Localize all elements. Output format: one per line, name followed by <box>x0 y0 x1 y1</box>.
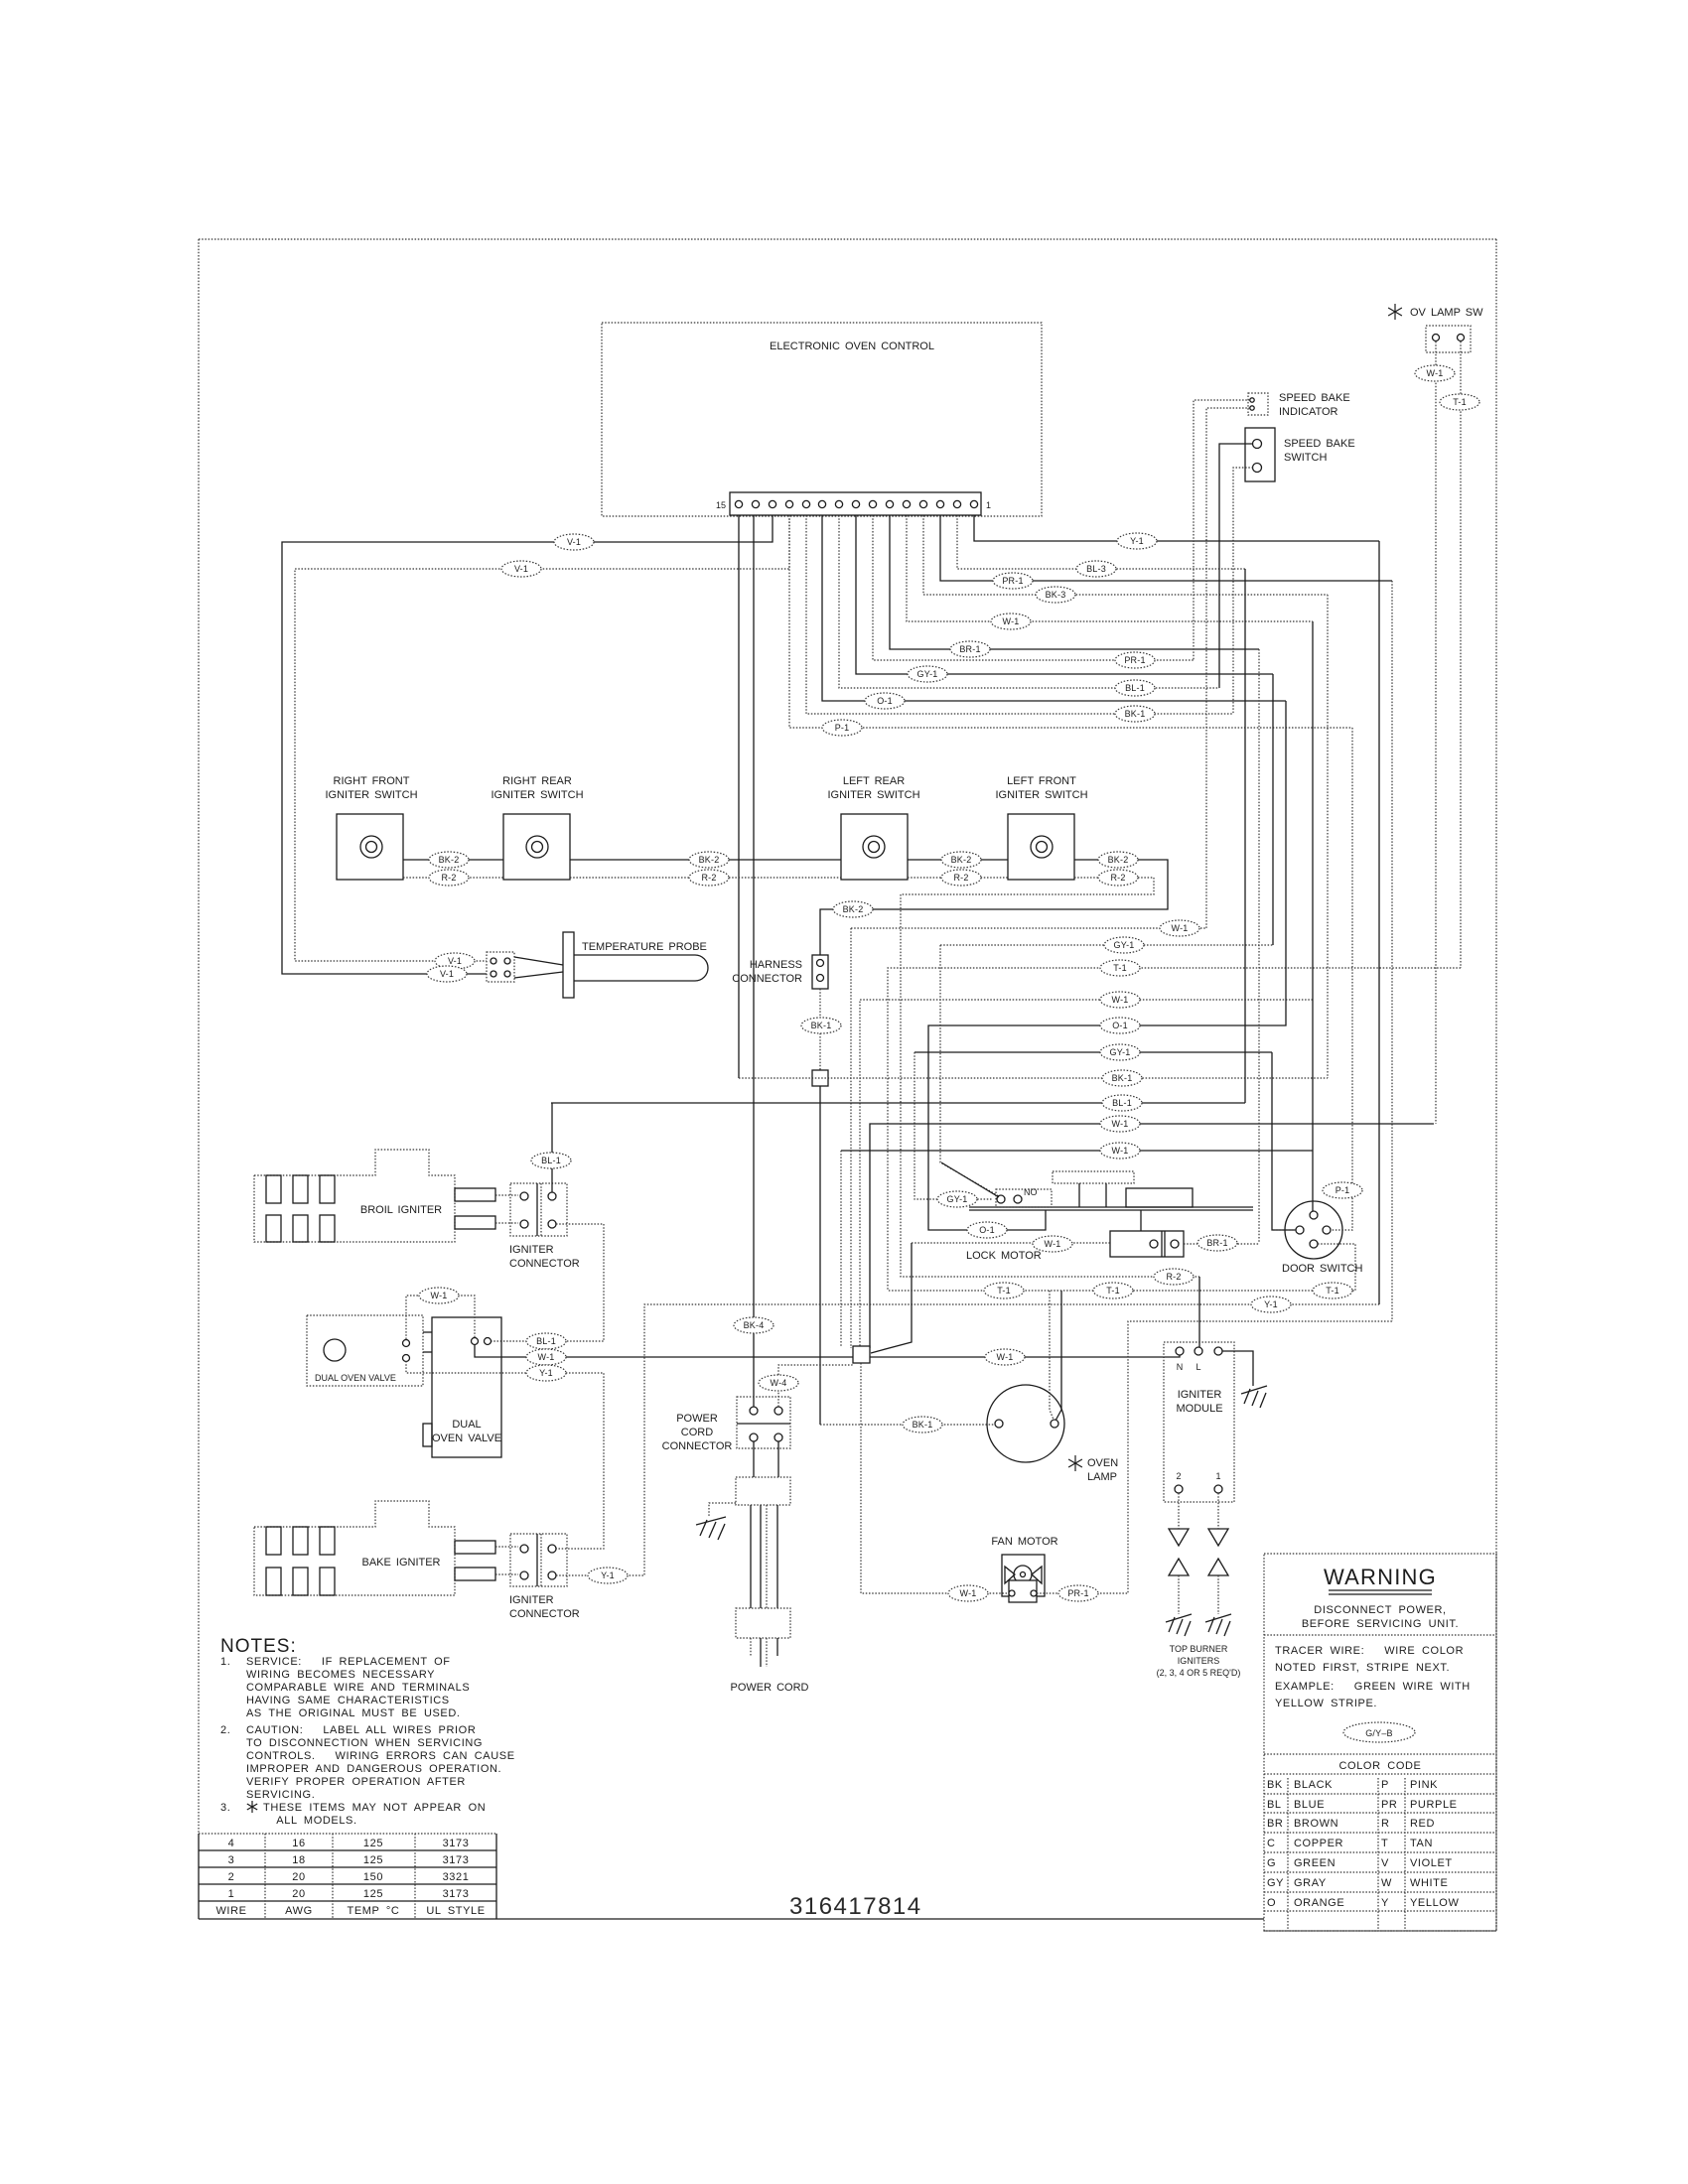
label BK-2 harness <box>833 901 873 917</box>
label BR-1 lock <box>1197 1235 1237 1251</box>
wire P-1 from U1 pin <box>789 515 1352 728</box>
svg-text:4: 4 <box>228 1838 235 1849</box>
wire PR-1 from U1 pin <box>940 515 1392 581</box>
label BK-1 lamp <box>903 1417 942 1433</box>
svg-text:BROIL IGNITER: BROIL IGNITER <box>360 1204 442 1216</box>
svg-text:R-2: R-2 <box>441 873 456 883</box>
wire module pin 2 arrow <box>1178 1493 1180 1529</box>
left rear igniter switch <box>841 814 908 880</box>
wire W-1 splice down to fan <box>861 1363 1007 1593</box>
label T-1 lamp sw <box>1440 394 1479 410</box>
svg-text:BL-3: BL-3 <box>1086 564 1106 574</box>
svg-text:ORANGE: ORANGE <box>1294 1897 1344 1909</box>
wire T-1 row <box>888 968 1461 1291</box>
door switch S3 <box>1285 1201 1342 1259</box>
wire W-1 lock drop to splice <box>871 1243 912 1353</box>
svg-text:BK-2: BK-2 <box>1108 855 1129 865</box>
svg-text:T-1: T-1 <box>1106 1286 1120 1296</box>
svg-text:GY-1: GY-1 <box>1110 1047 1131 1057</box>
svg-text:L: L <box>1196 1362 1200 1372</box>
wire T-1 dotted branch to lamp <box>1050 1291 1054 1420</box>
svg-text:BK-2: BK-2 <box>951 855 972 865</box>
svg-text:PR-1: PR-1 <box>1002 576 1023 586</box>
valve pins <box>403 1340 410 1347</box>
svg-text:THESE ITEMS MAY NOT APPEAR ON: THESE ITEMS MAY NOT APPEAR ON <box>263 1802 486 1814</box>
wire R-2 from LF switch down to igniter module L <box>901 878 1199 1277</box>
wire GY-1 row lower <box>914 1051 1272 1053</box>
svg-text:CONNECTOR: CONNECTOR <box>509 1608 580 1620</box>
svg-text:SPEED BAKE: SPEED BAKE <box>1284 438 1355 450</box>
wire PR-1 fan <box>1037 1321 1392 1593</box>
svg-text:IGNITER: IGNITER <box>509 1244 554 1256</box>
svg-text:SERVICING.: SERVICING. <box>246 1789 315 1801</box>
label BK-4 <box>734 1317 774 1333</box>
svg-text:W-1: W-1 <box>1112 1146 1129 1156</box>
svg-text:BL-1: BL-1 <box>1125 683 1145 693</box>
label V-1 second <box>501 561 541 577</box>
svg-text:UL STYLE: UL STYLE <box>426 1905 485 1917</box>
svg-text:R-2: R-2 <box>953 873 968 883</box>
svg-text:T: T <box>1381 1838 1388 1849</box>
svg-text:1: 1 <box>228 1888 235 1900</box>
wire BK-1 row <box>739 1077 1328 1079</box>
wire PR-1 to indicator <box>1194 400 1250 660</box>
svg-text:VIOLET: VIOLET <box>1410 1857 1453 1869</box>
svg-text:BEFORE SERVICING UNIT.: BEFORE SERVICING UNIT. <box>1302 1618 1459 1630</box>
svg-text:GY-1: GY-1 <box>917 669 938 679</box>
wire PR-1 from U1 pin <box>873 515 1194 660</box>
wire Y-1 from U1 pin <box>974 515 1379 541</box>
wire R-2 to module L <box>1198 1277 1200 1347</box>
svg-text:TEMP °C: TEMP °C <box>348 1905 400 1917</box>
label BL-1 broil <box>531 1153 571 1168</box>
oven lamp label <box>1068 1455 1082 1471</box>
svg-text:P-1: P-1 <box>835 723 850 733</box>
svg-text:TEMPERATURE PROBE: TEMPERATURE PROBE <box>582 941 707 953</box>
svg-text:NO: NO <box>1024 1187 1038 1197</box>
right rear igniter switch <box>503 814 570 880</box>
wire module pin 1 arrow <box>1217 1493 1219 1529</box>
svg-text:R-2: R-2 <box>1166 1272 1181 1282</box>
wire W-1 row3 from lamp switch <box>870 1124 1434 1348</box>
label W-4 <box>759 1375 798 1391</box>
svg-text:125: 125 <box>363 1854 383 1866</box>
oven lamp switch S1 <box>1426 326 1471 352</box>
svg-text:RIGHT REAR: RIGHT REAR <box>502 775 572 787</box>
ground symbol burner 2 <box>1166 1614 1192 1636</box>
label R-2 3 <box>941 870 981 886</box>
example wire label G/Y-B <box>1343 1722 1415 1742</box>
svg-text:RED: RED <box>1410 1818 1435 1830</box>
svg-text:POWER: POWER <box>676 1413 718 1425</box>
wire T-1 door bottom <box>888 1244 1355 1291</box>
svg-text:W-1: W-1 <box>431 1291 448 1300</box>
wire W-1 splice to igniter module N <box>870 1353 1180 1357</box>
svg-text:R-2: R-2 <box>701 873 716 883</box>
junction square on BK-1 <box>812 1070 828 1086</box>
wire W-1 lock <box>912 1242 1110 1244</box>
svg-text:LEFT REAR: LEFT REAR <box>843 775 905 787</box>
svg-text:MODULE: MODULE <box>1176 1403 1222 1415</box>
wire BK-1 from harness down <box>819 989 821 1070</box>
svg-text:GY-1: GY-1 <box>947 1194 968 1204</box>
svg-text:TO DISCONNECTION WHEN SERVICIN: TO DISCONNECTION WHEN SERVICING <box>246 1737 483 1749</box>
svg-text:TRACER WIRE: WIRE COLOR: TRACER WIRE: WIRE COLOR <box>1275 1645 1464 1657</box>
svg-text:IGNITER SWITCH: IGNITER SWITCH <box>491 789 583 801</box>
svg-text:BAKE IGNITER: BAKE IGNITER <box>361 1557 440 1569</box>
label Y-1 bake <box>588 1568 628 1583</box>
wire BL-3 from U1 pin <box>957 515 1245 569</box>
svg-text:BL-1: BL-1 <box>536 1336 556 1346</box>
label BK-1 harness <box>801 1018 841 1033</box>
wire BK-1 from U1 pin <box>806 515 1233 714</box>
svg-text:NOTED FIRST, STRIPE NEXT.: NOTED FIRST, STRIPE NEXT. <box>1275 1662 1450 1674</box>
svg-text:GREEN: GREEN <box>1294 1857 1336 1869</box>
label V-1 probe a <box>435 953 475 969</box>
svg-text:O-1: O-1 <box>979 1225 995 1235</box>
label W-1 fan <box>948 1585 988 1601</box>
svg-text:SERVICE: IF REPLACEMENT OF: SERVICE: IF REPLACEMENT OF <box>246 1656 451 1668</box>
svg-text:W-1: W-1 <box>997 1352 1014 1362</box>
svg-text:BROWN: BROWN <box>1294 1818 1338 1830</box>
wire W-1 row4 to door switch <box>841 1150 1313 1152</box>
svg-text:POWER CORD: POWER CORD <box>731 1682 809 1694</box>
note 3 asterisk <box>247 1801 257 1813</box>
svg-text:IGNITER: IGNITER <box>509 1594 554 1606</box>
U1 pins 15..1 <box>735 500 977 507</box>
broil igniter E1 <box>254 1150 455 1242</box>
svg-text:CONTROLS. WIRING ERRORS CAN: CONTROLS. WIRING ERRORS CAN CAUSE <box>246 1750 515 1762</box>
label BK-2 4 <box>1098 852 1138 868</box>
label Y-1 row <box>1251 1297 1291 1312</box>
wire BK-1 junction to lamp <box>819 1086 821 1425</box>
svg-text:Y-1: Y-1 <box>539 1368 553 1378</box>
svg-text:3173: 3173 <box>443 1838 470 1849</box>
power cord wires <box>750 1505 752 1608</box>
wire BK-1 long drop from pin 15 <box>738 515 740 1078</box>
svg-text:W-1: W-1 <box>1427 368 1444 378</box>
label PR-1 <box>1115 652 1155 668</box>
svg-text:316417814: 316417814 <box>789 1893 922 1920</box>
svg-text:CONNECTOR: CONNECTOR <box>509 1258 580 1270</box>
lock motor housing <box>1053 1171 1134 1183</box>
svg-text:WIRE: WIRE <box>215 1905 246 1917</box>
wire W-1 from lamp switch <box>1435 341 1437 1124</box>
wire BK-1 vertical <box>1327 595 1329 1078</box>
label W-1 valve top <box>419 1288 459 1303</box>
svg-text:125: 125 <box>363 1838 383 1849</box>
svg-text:DISCONNECT POWER,: DISCONNECT POWER, <box>1314 1604 1446 1616</box>
svg-text:TOP BURNER: TOP BURNER <box>1170 1644 1228 1654</box>
svg-text:IGNITER SWITCH: IGNITER SWITCH <box>325 789 417 801</box>
dual oven valve body <box>432 1317 501 1457</box>
svg-text:V-1: V-1 <box>448 956 462 966</box>
svg-text:20: 20 <box>292 1888 305 1900</box>
label P-1 <box>822 720 862 736</box>
svg-text:O-1: O-1 <box>1112 1021 1128 1030</box>
top burner igniter arrow 1 <box>1208 1559 1228 1575</box>
svg-text:SWITCH: SWITCH <box>1284 452 1327 464</box>
svg-text:P: P <box>1381 1779 1389 1791</box>
svg-text:OV LAMP SW: OV LAMP SW <box>1410 307 1483 319</box>
svg-text:N: N <box>1177 1362 1184 1372</box>
svg-text:3173: 3173 <box>443 1888 470 1900</box>
label BL-3 <box>1076 561 1116 577</box>
svg-text:WHITE: WHITE <box>1410 1877 1448 1889</box>
label O-1 row <box>1100 1018 1140 1033</box>
label T-1 c <box>1313 1283 1352 1298</box>
notes text <box>220 1656 515 1827</box>
svg-text:BL: BL <box>1267 1799 1282 1811</box>
label Y-1 <box>1117 533 1157 549</box>
power cord plug lower <box>736 1608 790 1638</box>
svg-text:CONNECTOR: CONNECTOR <box>662 1440 733 1452</box>
svg-text:BR-1: BR-1 <box>959 644 980 654</box>
label GY-1 lock <box>937 1191 977 1207</box>
label BK-2 1 <box>429 852 469 868</box>
svg-text:PR-1: PR-1 <box>1124 655 1145 665</box>
svg-text:3: 3 <box>228 1854 235 1866</box>
wire BR-1 from U1 pin <box>890 515 1259 649</box>
svg-text:T-1: T-1 <box>997 1286 1011 1296</box>
oven lamp <box>987 1385 1064 1462</box>
svg-text:GY-1: GY-1 <box>1114 940 1135 950</box>
wire T-1 from lamp switch <box>1460 341 1462 968</box>
top burner igniter arrow 2 <box>1169 1559 1189 1575</box>
svg-text:BK-2: BK-2 <box>439 855 460 865</box>
wire T-1 solid branch to lamp <box>1055 1291 1061 1421</box>
wire GY-1 row upper <box>940 944 1273 946</box>
harness connector J1 <box>812 955 828 989</box>
asterisk for OV LAMP SW <box>1388 304 1402 320</box>
label GY-1 row1 <box>1104 937 1144 953</box>
bake igniter connector <box>510 1534 567 1586</box>
label V-1 top <box>554 534 594 550</box>
svg-text:BK-3: BK-3 <box>1046 590 1066 600</box>
label O-1 lock <box>967 1222 1007 1238</box>
svg-text:W-4: W-4 <box>771 1378 787 1388</box>
wire module right pin to ground <box>1222 1351 1253 1386</box>
temperature probe connector <box>487 952 514 982</box>
wire W-1 from U1 pin <box>907 515 1313 621</box>
svg-text:LEFT FRONT: LEFT FRONT <box>1007 775 1076 787</box>
ground symbol power cord <box>696 1517 726 1540</box>
svg-text:RIGHT FRONT: RIGHT FRONT <box>334 775 410 787</box>
igniter module U2 <box>1164 1342 1234 1502</box>
svg-text:BK: BK <box>1267 1779 1283 1791</box>
svg-text:AWG: AWG <box>285 1905 313 1917</box>
svg-text:W-1: W-1 <box>1112 1119 1129 1129</box>
svg-text:W-1: W-1 <box>538 1352 555 1362</box>
label GY-1 <box>908 666 947 682</box>
svg-text:INDICATOR: INDICATOR <box>1279 406 1338 418</box>
lock motor cam box <box>1110 1231 1184 1257</box>
svg-text:W-1: W-1 <box>1172 923 1189 933</box>
svg-text:PINK: PINK <box>1410 1779 1438 1791</box>
svg-text:R-2: R-2 <box>1110 873 1125 883</box>
svg-text:R: R <box>1381 1818 1390 1830</box>
svg-text:GRAY: GRAY <box>1294 1877 1327 1889</box>
label W-1 valve row <box>526 1349 566 1365</box>
wire BL-3 vertical <box>1244 569 1246 1103</box>
U1 connector strip <box>730 492 981 515</box>
wire Y-1 from bake connector up <box>556 1304 1379 1575</box>
svg-text:COLOR CODE: COLOR CODE <box>1339 1760 1422 1772</box>
label R-2 1 <box>429 870 469 886</box>
svg-text:2.: 2. <box>220 1724 230 1736</box>
svg-text:BK-4: BK-4 <box>744 1320 765 1330</box>
svg-text:COMPARABLE WIRE AND TERMINALS: COMPARABLE WIRE AND TERMINALS <box>246 1682 470 1694</box>
label PR-1 <box>993 573 1033 589</box>
svg-text:2: 2 <box>1176 1471 1181 1481</box>
electronic oven control U1 box <box>602 323 1042 516</box>
wire O-1 from U1 pin <box>822 515 1286 701</box>
wire GY-1 from U1 pin <box>856 515 1273 674</box>
svg-text:V: V <box>1381 1857 1389 1869</box>
svg-text:IGNITERS: IGNITERS <box>1178 1656 1220 1666</box>
speed bake switch S2 <box>1245 428 1275 481</box>
svg-text:15: 15 <box>716 500 726 510</box>
bake igniter terminals <box>455 1541 495 1554</box>
wire V-1 upper <box>282 515 773 974</box>
wire BK-4 power from pin 14 <box>753 515 755 1411</box>
svg-text:1: 1 <box>1215 1471 1220 1481</box>
svg-text:BL-1: BL-1 <box>1112 1098 1132 1108</box>
svg-text:T-1: T-1 <box>1326 1286 1339 1296</box>
label W-1 lamp sw <box>1415 365 1455 381</box>
svg-text:3321: 3321 <box>443 1871 470 1883</box>
svg-text:18: 18 <box>292 1854 305 1866</box>
label GY-1 row2 <box>1100 1044 1140 1060</box>
svg-text:3173: 3173 <box>443 1854 470 1866</box>
label BK-2 3 <box>941 852 981 868</box>
svg-text:1.: 1. <box>220 1656 230 1668</box>
svg-text:AS THE ORIGINAL MUST BE USED.: AS THE ORIGINAL MUST BE USED. <box>246 1707 461 1719</box>
svg-text:BK-1: BK-1 <box>811 1021 832 1030</box>
svg-text:BK-1: BK-1 <box>913 1420 933 1430</box>
label BK-2 2 <box>689 852 729 868</box>
svg-text:WARNING: WARNING <box>1324 1565 1437 1589</box>
wire P-1 to door switch <box>1331 728 1352 1230</box>
lock motor switch arm <box>941 1162 999 1197</box>
label R-2 2 <box>689 870 729 886</box>
svg-text:HAVING SAME CHARACTERISTICS: HAVING SAME CHARACTERISTICS <box>246 1695 450 1706</box>
svg-text:O-1: O-1 <box>877 696 893 706</box>
wire from broil connector to valve BL-1 <box>492 1224 604 1341</box>
svg-text:IGNITER SWITCH: IGNITER SWITCH <box>995 789 1087 801</box>
svg-text:V-1: V-1 <box>567 537 581 547</box>
svg-text:Y-1: Y-1 <box>601 1570 615 1580</box>
svg-text:DOOR SWITCH: DOOR SWITCH <box>1282 1263 1362 1275</box>
wire BK-1 from U1 pin <box>923 515 1328 595</box>
svg-text:150: 150 <box>363 1871 383 1883</box>
svg-text:SPEED BAKE: SPEED BAKE <box>1279 392 1350 404</box>
svg-text:BK-2: BK-2 <box>699 855 720 865</box>
svg-text:C: C <box>1267 1838 1276 1849</box>
svg-text:EXAMPLE: GREEN WIRE WITH: EXAMPLE: GREEN WIRE WITH <box>1275 1681 1471 1693</box>
svg-text:GY: GY <box>1267 1877 1284 1889</box>
wire Y-1 valve down <box>406 1361 604 1549</box>
wire BL-1 from U1 pin <box>839 515 1219 688</box>
svg-text:ALL MODELS.: ALL MODELS. <box>263 1815 357 1827</box>
wire O-1 row <box>928 701 1286 1230</box>
svg-text:BR-1: BR-1 <box>1206 1238 1227 1248</box>
svg-text:3.: 3. <box>220 1802 230 1814</box>
wire W-4 from splice <box>778 1356 860 1407</box>
ground symbol burner 1 <box>1205 1614 1231 1636</box>
warning box <box>1264 1554 1496 1931</box>
svg-text:DUAL OVEN VALVE: DUAL OVEN VALVE <box>315 1373 396 1383</box>
lock motor assembly <box>969 1206 1253 1208</box>
wire V-1 lower <box>295 515 789 961</box>
label R-2 4 <box>1098 870 1138 886</box>
svg-text:W-1: W-1 <box>1045 1239 1061 1249</box>
wire BK-1 to speed bake switch <box>1233 468 1253 714</box>
svg-text:Y-1: Y-1 <box>1130 536 1144 546</box>
svg-text:V-1: V-1 <box>440 969 454 979</box>
svg-text:O: O <box>1267 1897 1276 1909</box>
wire GY-1 vertical <box>1272 674 1274 945</box>
svg-text:BL-1: BL-1 <box>541 1156 561 1165</box>
label W-1 row3 <box>1100 1116 1140 1132</box>
svg-text:G: G <box>1267 1857 1276 1869</box>
svg-text:W-1: W-1 <box>1003 616 1020 626</box>
wire BL-1 from broil connector <box>551 1103 553 1192</box>
temperature probe body <box>514 957 563 965</box>
page border frame <box>199 238 1496 240</box>
svg-text:16: 16 <box>292 1838 305 1849</box>
svg-text:FAN MOTOR: FAN MOTOR <box>991 1536 1057 1548</box>
label W-1 <box>991 614 1031 629</box>
svg-text:IMPROPER AND DANGEROUS OPERATI: IMPROPER AND DANGEROUS OPERATION. <box>246 1763 501 1775</box>
power cord tails <box>750 1638 752 1656</box>
label BR-1 <box>950 641 990 657</box>
svg-text:W-1: W-1 <box>1112 995 1129 1005</box>
svg-text:1: 1 <box>986 500 991 510</box>
wire W-1 jumper over valve <box>406 1296 475 1339</box>
broil igniter terminals <box>455 1188 495 1201</box>
label W-1 lock <box>1033 1236 1072 1252</box>
svg-text:CONNECTOR: CONNECTOR <box>732 973 802 985</box>
svg-text:CAUTION: LABEL ALL WIRES PRI: CAUTION: LABEL ALL WIRES PRIOR <box>246 1724 476 1736</box>
broil igniter connector <box>510 1183 567 1236</box>
svg-text:BK-2: BK-2 <box>843 904 864 914</box>
svg-text:PR-1: PR-1 <box>1067 1588 1088 1598</box>
label R-2 lower <box>1154 1269 1194 1285</box>
wire W-1 to indicator <box>1206 408 1250 928</box>
wire BL-1 to speed bake switch <box>1219 444 1253 688</box>
lock motor NO contact box <box>996 1189 1052 1207</box>
svg-text:NOTES:: NOTES: <box>220 1636 297 1657</box>
fan motor M1 <box>1002 1555 1045 1596</box>
label T-1 a <box>984 1283 1024 1298</box>
power cord plug upper <box>753 1441 755 1477</box>
svg-text:W-1: W-1 <box>960 1588 977 1598</box>
svg-text:VERIFY PROPER OPERATION AFTER: VERIFY PROPER OPERATION AFTER <box>246 1776 466 1788</box>
svg-text:IGNITER SWITCH: IGNITER SWITCH <box>827 789 919 801</box>
svg-text:20: 20 <box>292 1871 305 1883</box>
left front igniter switch <box>1008 814 1074 880</box>
label V-1 probe b <box>427 966 467 982</box>
svg-text:LOCK MOTOR: LOCK MOTOR <box>966 1250 1042 1262</box>
svg-text:ELECTRONIC OVEN CONTROL: ELECTRONIC OVEN CONTROL <box>770 341 934 352</box>
wire R-2 between switches <box>403 877 503 879</box>
svg-text:BLACK: BLACK <box>1294 1779 1333 1791</box>
svg-text:HARNESS: HARNESS <box>750 959 802 971</box>
svg-text:(2, 3, 4 OR 5 REQ'D): (2, 3, 4 OR 5 REQ'D) <box>1157 1668 1241 1678</box>
label BL-1 valve <box>526 1333 566 1349</box>
label BK-1 <box>1115 706 1155 722</box>
